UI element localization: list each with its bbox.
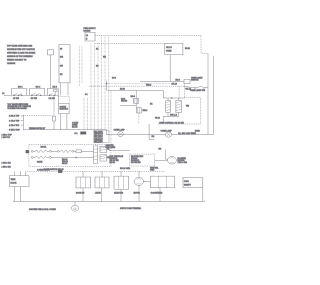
wire ignitor top bus	[163, 91, 184, 99]
svg-text:BK: BK	[60, 74, 63, 76]
terminal block TB1	[10, 171, 30, 201]
wire to right bus	[204, 87, 208, 89]
svg-text:1 GRN/YEL-16: 1 GRN/YEL-16	[37, 169, 50, 171]
wire dashed bus second	[95, 42, 169, 44]
svg-text:PWR SUPPLY: PWR SUPPLY	[84, 28, 97, 30]
label left margin	[2, 135, 13, 139]
svg-text:OVEN CONTROL BK-18 WH: OVEN CONTROL BK-18 WH	[159, 123, 185, 125]
clock box	[165, 43, 190, 54]
wire ignitor bottoms	[163, 112, 178, 124]
svg-text:CHANGE: CHANGE	[7, 62, 16, 65]
svg-text:SUPPLY CORD TERMINAL: SUPPLY CORD TERMINAL	[120, 207, 141, 210]
wire lower drops	[83, 185, 203, 201]
ignitor E2 (broil)	[176, 98, 182, 112]
svg-text:1 BU TOP: 1 BU TOP	[2, 137, 12, 139]
wire clock drop	[169, 55, 171, 82]
wire loom 9	[110, 91, 112, 145]
svg-text:1 OR-6 TOP: 1 OR-6 TOP	[9, 120, 20, 122]
oven enclosure	[29, 145, 111, 167]
wire	[45, 94, 48, 96]
svg-text:N: N	[86, 39, 88, 41]
svg-text:BK-16: BK-16	[62, 163, 67, 165]
oven light switch S2	[184, 77, 203, 83]
oven light feed component	[48, 50, 54, 89]
wire	[51, 150, 57, 152]
wire oven lamp line	[23, 129, 106, 131]
chassis ground G1	[72, 201, 79, 211]
wire	[27, 94, 30, 96]
wire loom 4	[94, 86, 96, 130]
wire motor feed	[166, 150, 168, 160]
label wire tags midfield	[85, 49, 190, 120]
connector P3 header	[94, 146, 98, 163]
wire component drops	[83, 171, 139, 177]
svg-text:BK-18: BK-18	[172, 83, 177, 85]
svg-text:L1: L1	[86, 35, 88, 37]
wire control feed	[109, 150, 130, 152]
wire loom 3	[90, 86, 92, 130]
oven cavity lamp DS2	[114, 129, 126, 137]
wire dotted bus	[107, 83, 171, 85]
svg-text:BK18: BK18	[195, 131, 200, 133]
svg-text:1 WH-6 TOP: 1 WH-6 TOP	[9, 130, 21, 132]
svg-text:OVEN LIGHT SW: OVEN LIGHT SW	[190, 90, 205, 92]
label grn/yel gnd	[150, 168, 159, 172]
svg-text:OVEN LAMP: OVEN LAMP	[161, 130, 173, 133]
node junction x106.6	[106, 80, 107, 90]
label GAS VALVE	[121, 98, 128, 103]
svg-text:P-1: P-1	[75, 133, 78, 135]
wire solenoid link	[120, 103, 136, 107]
door lock switch A2	[76, 177, 91, 194]
switch A4	[114, 176, 129, 194]
svg-text:IGN: IGN	[60, 57, 64, 59]
wire loom 1	[83, 98, 85, 131]
gas valve solenoid A	[134, 91, 139, 104]
svg-text:SP: SP	[60, 49, 62, 51]
svg-text:BR-18 P2: BR-18 P2	[94, 142, 102, 144]
wire loom 5	[97, 86, 99, 130]
svg-text:VALVE: VALVE	[121, 100, 128, 103]
svg-text:BU-6: BU-6	[176, 79, 180, 81]
svg-text:SELECTOR: SELECTOR	[114, 193, 124, 195]
wire dashed bus top	[95, 35, 201, 37]
svg-text:IGNITION OF TOP BURNERS: IGNITION OF TOP BURNERS	[7, 56, 34, 58]
svg-text:LATCH: LATCH	[95, 192, 101, 195]
svg-text:MOTOR: MOTOR	[134, 193, 141, 195]
wire loom 7	[104, 84, 106, 130]
connector P2 pin list	[94, 130, 110, 143]
svg-text:1 BK-6 TOP: 1 BK-6 TOP	[9, 116, 20, 118]
svg-text:1 RD-8 DB: 1 RD-8 DB	[2, 167, 12, 169]
gas valve solenoid B	[137, 108, 148, 113]
wire row 1 label	[9, 115, 23, 130]
ignitor E1 (bake)	[166, 98, 171, 112]
svg-text:CLOCK/TIMER: CLOCK/TIMER	[151, 193, 164, 195]
oven lamp DS1	[166, 132, 172, 137]
svg-text:TOP VALVE SWITCHES ARE: TOP VALVE SWITCHES ARE	[7, 45, 33, 48]
T-STAT text block	[72, 122, 79, 129]
svg-text:P-1: P-1	[85, 94, 88, 96]
note text block	[7, 103, 31, 110]
svg-text:OVEN: OVEN	[166, 50, 172, 52]
svg-text:ALL BK & DB TERM: ALL BK & DB TERM	[178, 132, 196, 135]
svg-text:LF SW: LF SW	[13, 98, 19, 100]
fuse F1	[53, 116, 56, 130]
svg-text:GND WIRE: GND WIRE	[106, 147, 116, 149]
wire drop from SW4	[53, 95, 55, 115]
svg-text:RD-6: RD-6	[131, 96, 135, 98]
svg-text:CLK B: CLK B	[166, 47, 173, 49]
svg-text:WH: WH	[103, 57, 107, 59]
wire block leads	[61, 83, 69, 95]
svg-text:RD: RD	[152, 136, 155, 138]
broil element R1	[31, 150, 51, 153]
wire row 2 label	[9, 120, 23, 122]
fuse block F2 label	[84, 28, 97, 33]
svg-text:GROUND PER LOCAL CODES: GROUND PER LOCAL CODES	[29, 208, 57, 211]
spark module U1	[59, 95, 70, 113]
notes text block	[7, 45, 36, 65]
broil element R2	[57, 150, 74, 153]
svg-text:PLUG: PLUG	[184, 181, 189, 183]
svg-text:1 BK-8 DB: 1 BK-8 DB	[2, 162, 12, 164]
svg-text:WIRING SUBJECT TO: WIRING SUBJECT TO	[7, 60, 27, 62]
svg-text:WH: WH	[186, 105, 190, 107]
bake element R3	[31, 156, 93, 159]
door switch S3	[190, 86, 205, 92]
svg-text:BU-4: BU-4	[18, 86, 22, 89]
svg-text:BK WH RD: BK WH RD	[131, 162, 141, 164]
wire dashed bus	[89, 85, 182, 87]
wire dotted drop to module	[68, 97, 70, 104]
wire dotted continuation	[58, 96, 69, 98]
svg-text:DOOR SW: DOOR SW	[76, 193, 85, 195]
wire corner drop	[201, 36, 208, 53]
oven control dashed enclosure	[157, 97, 201, 124]
motor M1	[155, 156, 177, 164]
relay K1	[100, 146, 110, 152]
svg-text:RF SW: RF SW	[31, 98, 37, 100]
svg-text:BROIL: BROIL	[41, 147, 48, 149]
svg-text:RD-18: RD-18	[120, 89, 125, 91]
oven box left terminal	[26, 150, 29, 153]
svg-text:BAKE: BAKE	[37, 161, 43, 164]
wire ignitor drops	[179, 84, 185, 98]
svg-text:RECEPT: RECEPT	[184, 184, 191, 186]
svg-text:IGN L-R: IGN L-R	[170, 115, 178, 117]
svg-text:L1: L1	[2, 93, 4, 95]
wire right bus down	[207, 88, 209, 135]
svg-text:BK-16 GND: BK-16 GND	[120, 168, 131, 170]
wire lamp to right bus	[172, 134, 214, 136]
motor M2	[134, 177, 151, 194]
svg-text:WH-6: WH-6	[143, 110, 148, 112]
svg-text:THERM SW BK-17: THERM SW BK-17	[29, 128, 45, 130]
svg-text:TERM: TERM	[11, 179, 16, 181]
wire lamp line jog	[107, 130, 166, 135]
switch SW3 loop (top valve switch)	[47, 89, 58, 96]
wire dashed to fuse	[23, 114, 52, 116]
svg-text:SW: SW	[60, 65, 63, 67]
svg-text:GY-18: GY-18	[155, 118, 160, 120]
switch SW4 (small)	[53, 90, 57, 96]
relay K2	[100, 155, 110, 161]
wire to door switch	[183, 86, 195, 88]
wire row 3 label	[9, 125, 23, 127]
wire loom 8	[108, 91, 110, 135]
wire right bus upper	[207, 53, 209, 88]
svg-text:RD: RD	[96, 65, 99, 67]
wire loom 6	[101, 84, 103, 131]
control module A1 dashed box	[130, 154, 155, 166]
wire loom 2	[87, 98, 89, 131]
wire L1 entry	[2, 93, 11, 95]
timer block A5	[151, 176, 175, 194]
label grn/yel	[106, 145, 116, 149]
ground rail	[13, 200, 205, 202]
svg-text:BU-4: BU-4	[36, 86, 40, 89]
svg-text:BK-18: BK-18	[185, 48, 190, 50]
switch A3	[95, 177, 109, 194]
wire dashed pair	[80, 46, 83, 86]
svg-text:SHOWN IN THE OFF POSITION: SHOWN IN THE OFF POSITION	[7, 49, 35, 51]
wire ignitor feed	[108, 90, 164, 92]
svg-text:OVEN LAMP: OVEN LAMP	[114, 129, 126, 132]
svg-text:WH-18: WH-18	[146, 84, 151, 86]
switch SW1 loop (top valve switch)	[12, 89, 27, 96]
svg-text:MODULE: MODULE	[60, 109, 69, 111]
svg-text:RD: RD	[159, 148, 162, 150]
wire bottom dashed	[27, 170, 165, 172]
fuse block F2	[85, 32, 95, 41]
label motor	[178, 158, 188, 164]
svg-text:BK: BK	[150, 104, 153, 106]
wire oven light feed	[140, 80, 184, 82]
svg-text:BLOCK: BLOCK	[11, 183, 18, 185]
svg-text:BK: BK	[96, 49, 99, 51]
svg-text:BK-18: BK-18	[186, 89, 191, 91]
wire loom upper extensions	[91, 43, 98, 86]
svg-text:1 RD-6 TOP: 1 RD-6 TOP	[9, 125, 20, 127]
label left of module	[110, 155, 124, 164]
label inside	[62, 159, 68, 165]
svg-text:SWITCH: SWITCH	[191, 80, 199, 82]
svg-text:BU-4: BU-4	[53, 86, 57, 89]
wire module leads down	[61, 114, 67, 130]
wire far right vertical	[213, 56, 215, 135]
label left margin lower	[2, 162, 12, 168]
wire RD drop	[149, 124, 155, 140]
svg-text:BK-16: BK-16	[72, 126, 77, 128]
svg-text:BU-6: BU-6	[112, 78, 116, 80]
receptacle A6	[183, 177, 203, 187]
surface switch block	[59, 44, 70, 82]
wire solenoid B drop	[138, 113, 140, 124]
svg-text:SWITCHES CLOSE FOR SPARK: SWITCHES CLOSE FOR SPARK	[7, 52, 36, 55]
connector P1	[75, 132, 87, 135]
svg-text:CLOSED FOR SPARK: CLOSED FOR SPARK	[7, 107, 27, 110]
ground lug	[58, 170, 62, 173]
switch SW2 loop (top valve switch)	[30, 89, 45, 96]
wire row 4 label	[9, 130, 21, 132]
thermal fuse TF1	[74, 150, 94, 153]
svg-text:RD-16: RD-16	[110, 162, 115, 164]
svg-text:1 BK & DB: 1 BK & DB	[178, 162, 188, 164]
